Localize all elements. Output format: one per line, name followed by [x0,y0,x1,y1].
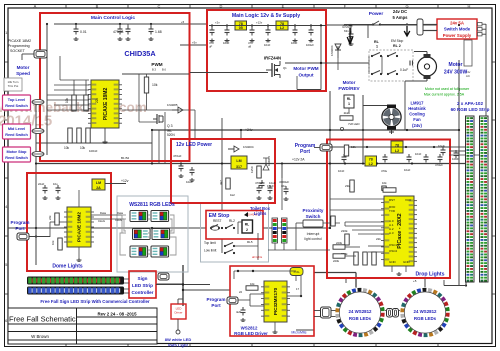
svg-text:Motor: Motor [449,62,463,68]
svg-text:RST: RST [389,198,395,202]
svg-text:1k50: 1k50 [250,166,254,173]
svg-text:Fan: Fan [413,117,421,122]
svg-text:Top Level: Top Level [8,98,25,102]
svg-text:u8: u8 [248,45,252,49]
svg-text:B.6: B.6 [162,68,166,72]
svg-text:MicroMite: MicroMite [291,331,306,335]
svg-text:1k2: 1k2 [230,193,235,197]
svg-text:GND: GND [389,260,397,264]
svg-text:Free Fall Sign LED Strip With: Free Fall Sign LED Strip With Commercial… [40,299,150,304]
svg-text:220k: 220k [341,229,348,233]
svg-text:Low limit: Low limit [204,249,217,253]
svg-text:Programming: Programming [8,44,30,48]
svg-text:Output: Output [298,73,314,78]
svg-text:PICAXE 18M2: PICAXE 18M2 [77,212,82,242]
svg-text:10k: 10k [152,83,158,87]
svg-text:60 RGB LED Strip: 60 RGB LED Strip [451,107,490,112]
svg-text:L2: L2 [395,149,399,153]
svg-text:REST: REST [213,219,222,223]
svg-text:Switch Mode: Switch Mode [444,27,471,32]
svg-text:B.3: B.3 [152,68,156,72]
svg-text:C: C [158,4,161,9]
svg-text:4k7: 4k7 [219,180,223,185]
svg-text:Max current approx. 2.5A: Max current approx. 2.5A [424,93,465,97]
svg-text:1N4085: 1N4085 [167,103,178,107]
svg-text:D: D [220,4,223,9]
svg-text:VCC: VCC [405,198,412,202]
svg-text:Reed Switch: Reed Switch [5,133,28,137]
svg-text:10uF: 10uF [438,144,445,148]
svg-text:WS2811 RGB LEDs: WS2811 RGB LEDs [129,202,175,208]
svg-text:0.01: 0.01 [80,30,87,34]
svg-text:CHID35A: CHID35A [124,49,156,58]
svg-text:Proximity: Proximity [303,208,324,213]
svg-text:10nF: 10nF [338,169,345,173]
svg-text:Port: Port [15,226,25,231]
svg-text:Motor not used at full power: Motor not used at full power [425,87,470,91]
svg-text:Data: Data [117,211,123,215]
svg-text:22k: 22k [95,97,99,103]
svg-text:470uF: 470uF [255,181,263,185]
svg-text:RL: RL [245,223,250,227]
svg-text:8W white LED: 8W white LED [165,337,192,342]
svg-text:all lights: all lights [252,255,263,259]
svg-text:10k: 10k [250,282,255,286]
svg-text:OSC2: OSC2 [389,249,398,253]
svg-text:Motor PWM: Motor PWM [293,66,318,71]
svg-text:317: 317 [236,165,242,169]
svg-text:Drop Lights: Drop Lights [415,272,444,278]
svg-text:10k: 10k [382,181,387,185]
svg-text:4u8: 4u8 [236,310,241,314]
svg-text:LM: LM [236,159,241,163]
svg-text:+12v 2A: +12v 2A [292,158,305,162]
svg-text:Mid Level: Mid Level [8,127,25,131]
svg-text:12v LED Power: 12v LED Power [176,142,212,148]
svg-text:LED Strip: LED Strip [132,283,153,288]
svg-text:Controller: Controller [132,290,154,295]
svg-text:24v 5A: 24v 5A [450,21,464,26]
svg-text:Power Supply: Power Supply [443,33,472,38]
svg-text:+5: +5 [413,279,417,283]
svg-text:Cooling: Cooling [409,112,425,117]
svg-text:Top limit: Top limit [204,241,216,245]
svg-text:RGB LEDs: RGB LEDs [414,316,437,321]
svg-text:Port: Port [300,149,310,155]
svg-text:10u: 10u [53,182,58,186]
svg-text:24V 300W: 24V 300W [444,70,468,76]
svg-text:10uF: 10uF [291,41,298,45]
svg-text:B1 B2: B1 B2 [121,156,130,160]
svg-text:EM Stop: EM Stop [391,39,403,43]
svg-text:1N4004: 1N4004 [267,156,271,166]
svg-text:Clock: Clock [98,219,106,223]
svg-text:0.1uF: 0.1uF [400,68,408,72]
svg-text:+5: +5 [181,20,185,24]
svg-text:1: 1 [376,45,378,49]
svg-text:PWM: PWM [151,62,162,67]
svg-text:PICaxe - 28X2: PICaxe - 28X2 [397,213,403,248]
svg-text:Dome Lights: Dome Lights [52,264,82,270]
svg-text:uF: uF [209,45,213,49]
svg-text:220k: 220k [333,259,340,263]
svg-text:10uF: 10uF [223,41,230,45]
svg-text:10nF: 10nF [264,43,271,47]
svg-text:+5v: +5v [192,41,197,45]
svg-text:2A: 2A [96,186,101,190]
svg-text:470uF: 470uF [435,163,443,167]
svg-text:Motor Stop: Motor Stop [6,150,27,154]
svg-text:10k: 10k [64,146,70,150]
svg-text:Power: Power [369,11,384,17]
svg-text:RL 2: RL 2 [393,44,401,48]
svg-text:Program: Program [207,297,226,302]
svg-text:17: 17 [296,287,300,291]
svg-text:24v DC: 24v DC [393,9,407,14]
svg-text:2k2: 2k2 [344,111,349,115]
svg-text:10uF: 10uF [269,181,276,185]
svg-text:W Brown: W Brown [31,334,49,339]
svg-text:100uF: 100uF [306,43,314,47]
svg-text:100nF: 100nF [89,149,98,153]
svg-text:RL2: RL2 [229,219,235,223]
svg-text:22: 22 [239,290,243,294]
svg-text:10nF: 10nF [415,152,422,156]
svg-text:H: H [468,4,471,9]
svg-text:1: 1 [348,102,350,106]
svg-text:Free Fall Schematic: Free Fall Schematic [9,315,76,324]
svg-text:63v: 63v [344,29,349,33]
svg-text:Heatsink: Heatsink [408,106,426,111]
svg-text:LM917: LM917 [410,101,424,106]
svg-text:E: E [282,4,285,9]
svg-text:RGB LED Driver: RGB LED Driver [234,331,268,336]
svg-text:+12v: +12v [256,21,263,25]
svg-text:L2: L2 [280,26,284,30]
svg-text:RGB LEDs: RGB LEDs [349,316,372,321]
svg-text:470u: 470u [381,169,388,173]
svg-text:PICAXE 18M2: PICAXE 18M2 [8,39,31,43]
svg-text:WS2812: WS2812 [241,326,258,331]
svg-text:2: 2 [246,228,248,232]
svg-text:22k: 22k [48,215,52,220]
svg-text:Switch: Switch [306,214,321,219]
svg-text:2 x APA-102: 2 x APA-102 [457,101,483,106]
svg-text:Data: Data [100,211,106,215]
svg-text:light control: light control [304,237,322,241]
svg-text:+24v: +24v [245,128,253,132]
svg-text:470uF: 470uF [173,154,182,158]
svg-text:Main Control Logic: Main Control Logic [91,15,136,21]
svg-text:10k: 10k [51,240,55,245]
svg-text:Q1: Q1 [283,66,287,70]
svg-text:Sign: Sign [138,276,148,281]
svg-text:SOCKET: SOCKET [10,49,26,53]
svg-text:Program: Program [11,220,30,225]
svg-text:(24v): (24v) [412,123,422,128]
svg-text:Motor: Motor [17,65,30,70]
svg-text:Interrupt: Interrupt [307,232,320,236]
svg-text:PICAXE 18M2: PICAXE 18M2 [103,88,109,121]
svg-text:22uF: 22uF [38,182,45,186]
svg-text:10k: 10k [80,146,86,150]
svg-text:RL: RL [347,97,351,101]
svg-text:1N4004: 1N4004 [330,45,334,56]
svg-text:+12v: +12v [121,179,129,183]
svg-text:A.3: A.3 [389,231,394,235]
svg-text:5 Amps: 5 Amps [393,15,409,20]
svg-text:520N: 520N [167,133,175,137]
svg-text:24 WS2812: 24 WS2812 [349,309,373,314]
svg-text:A: A [34,4,37,9]
svg-text:Port: Port [211,303,221,308]
svg-text:1N4004: 1N4004 [243,145,254,149]
svg-text:Trim Pot: Trim Pot [8,84,19,88]
svg-text:Q 3: Q 3 [167,124,173,128]
svg-text:1.68: 1.68 [155,30,162,34]
svg-text:23k: 23k [345,184,350,188]
svg-text:Driver: Driver [175,311,183,315]
svg-text:G: G [405,4,408,9]
svg-text:B: B [96,4,99,9]
svg-text:RL5: RL5 [247,240,253,244]
svg-text:16v: 16v [281,184,286,188]
svg-text:Rev 2 24 - 08 -2015: Rev 2 24 - 08 -2015 [97,312,137,317]
svg-text:10uF: 10uF [404,168,411,172]
svg-text:TXD: TXD [389,209,396,213]
svg-text:7x8 LED: 7x8 LED [348,122,360,126]
svg-text:LM: LM [96,181,101,185]
svg-text:RL: RL [374,40,380,44]
svg-text:Main Logic 12v & 5v Supply: Main Logic 12v & 5v Supply [232,13,300,19]
svg-text:Path Light: Path Light [168,343,188,348]
svg-text:Speed: Speed [16,71,30,76]
svg-text:Motor: Motor [343,80,356,85]
svg-text:24 WS2812: 24 WS2812 [414,309,438,314]
svg-text:PIC32MX170: PIC32MX170 [273,287,278,315]
svg-text:22k: 22k [376,237,381,241]
svg-text:Clock: Clock [115,218,123,222]
svg-text:FWD/REV: FWD/REV [338,86,360,91]
svg-text:10k: 10k [351,145,356,149]
svg-text:Reed Switch: Reed Switch [5,156,28,160]
svg-text:L2: L2 [369,162,373,166]
svg-text:220k: 220k [336,241,343,245]
svg-text:Lights: Lights [254,211,267,216]
svg-text:Reed Switch: Reed Switch [5,104,28,108]
svg-text:10uF: 10uF [186,180,193,184]
svg-text:OSC1: OSC1 [389,243,398,247]
svg-text:GND: GND [403,260,411,264]
svg-text:+2v: +2v [215,21,220,25]
svg-text:05: 05 [239,26,243,30]
svg-text:IRFZ44N: IRFZ44N [264,56,281,61]
